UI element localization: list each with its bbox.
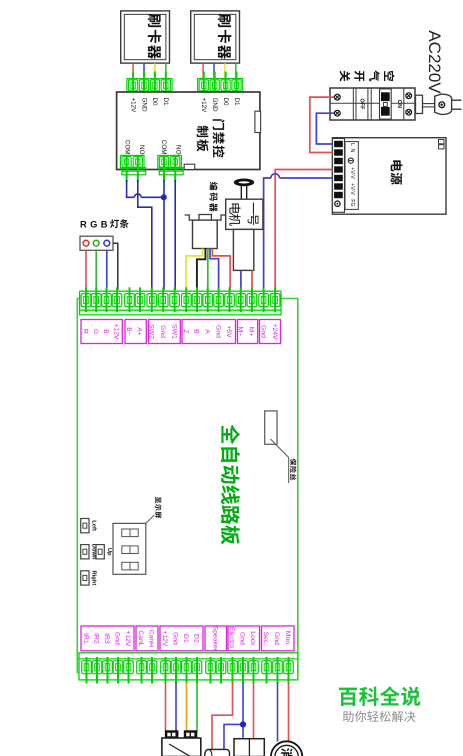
svg-text:B: B — [102, 329, 109, 334]
svg-text:R: R — [82, 329, 89, 334]
wire enc red — [212, 249, 230, 291]
svg-text:Gnd: Gnd — [172, 632, 179, 645]
wire NO1 to SW2 — [138, 180, 152, 290]
wire NO2 to SW1 — [174, 180, 176, 290]
svg-text:ON: ON — [396, 100, 402, 108]
svg-text:Speaker: Speaker — [212, 626, 219, 652]
power supply box — [332, 138, 446, 215]
svg-text:+12V: +12V — [113, 323, 120, 340]
RGB connector — [80, 236, 113, 250]
wire enc yellow — [186, 249, 202, 291]
logo subtitle — [343, 711, 416, 722]
svg-text:Gnd: Gnd — [259, 325, 266, 338]
svg-text:COM: COM — [124, 140, 131, 155]
card reader 2 box — [191, 11, 240, 63]
wire B — [106, 250, 108, 290]
COM NO pin labels — [124, 140, 182, 155]
pin label box B4: Speaker — [205, 626, 227, 652]
power supply label — [390, 160, 402, 184]
main board title — [221, 425, 240, 545]
wire Gnd blue — [175, 683, 177, 732]
pin label box B6: Sec. Gnd Mon. — [262, 626, 295, 651]
wire L blue — [316, 113, 334, 144]
pin label box T1: R G B +12V — [81, 320, 122, 344]
wire N red — [310, 97, 334, 152]
wire Lock red — [253, 683, 255, 738]
button Down — [81, 544, 97, 560]
display label — [155, 497, 161, 518]
svg-text:B: B — [193, 329, 200, 334]
svg-text:OFF: OFF — [359, 98, 365, 110]
svg-text:+12V: +12V — [200, 98, 207, 114]
pin label box B2: CanL CanH — [136, 626, 158, 651]
display DS1 — [113, 515, 155, 575]
motor M1 label — [229, 203, 258, 226]
svg-text:IR3: IR3 — [103, 633, 110, 644]
svg-text:Up: Up — [106, 548, 112, 556]
IR connector P2 — [184, 731, 197, 739]
svg-text:D2: D2 — [193, 634, 200, 643]
junction dot A — [161, 194, 167, 200]
wire enc blue — [210, 249, 219, 291]
wire G — [95, 250, 97, 290]
svg-text:Gnd: Gnd — [239, 632, 246, 645]
svg-text:IR1: IR1 — [82, 633, 89, 644]
svg-text:FG: FG — [349, 199, 355, 206]
AC220V label — [425, 30, 444, 94]
svg-text:A+: A+ — [136, 327, 143, 336]
fuse label — [290, 459, 296, 481]
wire D1 orange — [186, 683, 188, 732]
svg-text:G: G — [92, 329, 99, 334]
svg-text:+V-V: +V-V — [349, 183, 355, 195]
wire Gnd2 blue — [224, 683, 243, 751]
pin label box T2: B− A+ — [125, 320, 146, 344]
access control board pin labels — [129, 98, 239, 114]
button Left — [81, 519, 97, 533]
svg-text:GND: GND — [140, 98, 147, 112]
card reader 1 wires — [133, 63, 166, 78]
svg-text:IR2: IR2 — [93, 633, 100, 644]
svg-text:+5V: +5V — [225, 325, 232, 338]
svg-text:Mon.: Mon. — [284, 631, 291, 646]
svg-text:Gnd: Gnd — [273, 632, 280, 645]
RGB strip label — [80, 219, 129, 229]
reader module box — [162, 738, 201, 756]
alarm bell — [271, 741, 302, 756]
wire Electro red — [212, 683, 233, 750]
motor M1 box — [226, 199, 263, 270]
svg-text:Left: Left — [91, 520, 97, 531]
wire COM1 to Gnd — [127, 180, 161, 197]
svg-text:+12V: +12V — [161, 630, 168, 647]
air switch label — [340, 70, 395, 81]
logo text — [339, 686, 420, 706]
svg-text:CanL: CanL — [137, 630, 144, 646]
pin label box B5: Electro. Gnd Lock — [228, 626, 260, 651]
svg-text:N: N — [349, 149, 355, 153]
svg-text:GND: GND — [211, 98, 218, 112]
lock box — [234, 739, 264, 756]
svg-text:COM: COM — [160, 140, 167, 155]
svg-text:SW2: SW2 — [148, 324, 155, 339]
AC plug — [416, 94, 462, 114]
button Up — [96, 545, 112, 559]
svg-text:M+: M+ — [248, 327, 255, 337]
svg-text:+12V: +12V — [129, 98, 136, 114]
button Right — [81, 570, 97, 585]
svg-text:NO: NO — [138, 145, 145, 155]
junction dot B — [240, 721, 246, 727]
motor key handle — [234, 179, 254, 200]
svg-text:Lock: Lock — [249, 631, 256, 646]
encoder M2 — [185, 215, 226, 249]
IR connector P1 — [165, 731, 178, 739]
svg-text:+12V: +12V — [124, 630, 131, 647]
wire R — [85, 250, 87, 290]
pin label box T4: Z B A Gnd +5V — [182, 320, 236, 344]
wire +12V red — [165, 683, 167, 732]
pin label box T6: Gnd +24V — [259, 320, 280, 344]
card reader 2 connector J2 — [196, 72, 245, 103]
svg-text:D1: D1 — [233, 98, 240, 107]
wire Gnd3 blue — [277, 683, 279, 742]
air switch QF1 — [330, 88, 415, 120]
svg-text:L: L — [349, 143, 355, 146]
svg-text:Electro.: Electro. — [228, 627, 235, 650]
wire M- blue — [240, 270, 242, 290]
wire enc green — [207, 249, 209, 291]
wire Gnd blue — [264, 174, 333, 290]
wire RGB +12V black — [113, 243, 118, 290]
main board bottom terminal strip — [79, 653, 298, 684]
pin label box T3: SW2 Gnd SW1 — [148, 320, 181, 344]
wire M+ red — [251, 270, 253, 290]
svg-text:+24V: +24V — [271, 323, 278, 340]
svg-text:SW1: SW1 — [170, 324, 177, 339]
svg-text:+V-V: +V-V — [349, 167, 355, 179]
wire COM2 to Gnd pin — [163, 180, 165, 290]
speaker cylinder — [205, 749, 230, 756]
svg-text:Gnd: Gnd — [214, 325, 221, 338]
svg-text:AC220V: AC220V — [425, 30, 444, 94]
svg-text:Gnd: Gnd — [159, 325, 166, 338]
pin label box B1: IR1 IR2 IR3 Gnd +12V — [81, 626, 134, 651]
svg-text:R G B: R G B — [80, 219, 108, 229]
svg-text:CanH: CanH — [148, 630, 155, 647]
pin label box B3: +12V Gnd D1 D2 — [160, 626, 203, 651]
wire +24V red — [275, 170, 332, 291]
wire D2 green — [196, 683, 198, 732]
svg-text:D1: D1 — [182, 634, 189, 643]
svg-text:Right: Right — [91, 570, 97, 585]
card reader 2 wires — [203, 63, 236, 78]
svg-text:NO: NO — [175, 145, 182, 155]
main board outline — [77, 299, 297, 673]
svg-text:A: A — [203, 329, 210, 334]
pin label box T5: M− M+ — [237, 320, 258, 344]
svg-text:Sec.: Sec. — [262, 632, 269, 646]
svg-text:Z: Z — [182, 329, 189, 333]
svg-text:Gnd: Gnd — [114, 632, 121, 645]
relay connector K1 — [120, 155, 145, 182]
relay connector K2 — [158, 155, 183, 182]
access control board box — [117, 92, 261, 170]
svg-text:D0: D0 — [222, 98, 229, 107]
encoder label — [209, 182, 217, 212]
svg-text:M−: M− — [237, 327, 244, 337]
card reader 1 connector J1 — [125, 72, 174, 103]
card reader 1 box — [121, 11, 170, 63]
fuse F1 — [265, 411, 289, 483]
svg-text:D0: D0 — [151, 98, 158, 107]
wire enc black — [197, 249, 206, 291]
main board top terminal strip — [80, 287, 281, 315]
svg-text:B−: B− — [125, 327, 132, 336]
access control board label — [197, 119, 225, 157]
wire Mon red — [288, 683, 290, 742]
svg-text:D1: D1 — [162, 98, 169, 107]
